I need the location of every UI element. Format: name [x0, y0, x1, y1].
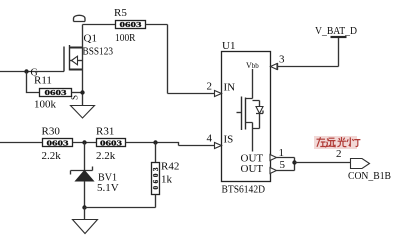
svg-text:4: 4: [207, 133, 213, 145]
svg-text:R30: R30: [42, 126, 61, 138]
svg-text:2: 2: [207, 81, 213, 93]
svg-text:100k: 100k: [34, 99, 57, 111]
svg-text:1: 1: [279, 147, 285, 159]
svg-text:G: G: [31, 68, 38, 79]
svg-text:IS: IS: [224, 134, 234, 146]
svg-text:0603: 0603: [120, 21, 143, 29]
svg-text:2.2k: 2.2k: [96, 150, 116, 162]
svg-text:5.1V: 5.1V: [97, 182, 119, 194]
svg-text:CON_B1B: CON_B1B: [348, 171, 391, 182]
svg-text:2.2k: 2.2k: [42, 150, 62, 162]
svg-text:2: 2: [336, 148, 342, 160]
svg-text:0603: 0603: [47, 140, 70, 148]
svg-text:0603: 0603: [100, 140, 123, 148]
svg-text:3: 3: [279, 54, 285, 66]
svg-text:5: 5: [280, 159, 286, 171]
svg-text:BTS6142D: BTS6142D: [222, 185, 266, 196]
svg-text:100R: 100R: [115, 32, 136, 44]
svg-text:R42: R42: [161, 161, 179, 173]
svg-text:S: S: [70, 95, 80, 100]
svg-text:R31: R31: [96, 126, 114, 138]
svg-text:IN: IN: [224, 82, 236, 94]
svg-text:Q1: Q1: [84, 33, 97, 45]
svg-text:OUT: OUT: [241, 163, 264, 175]
svg-text:U1: U1: [222, 40, 235, 52]
svg-text:0603: 0603: [45, 89, 68, 97]
svg-text:R5: R5: [114, 7, 127, 19]
svg-text:1k: 1k: [161, 174, 173, 186]
svg-text:V_BAT_D: V_BAT_D: [315, 26, 357, 37]
svg-text:BSS123: BSS123: [83, 46, 114, 58]
svg-text:Vbb: Vbb: [246, 61, 259, 70]
